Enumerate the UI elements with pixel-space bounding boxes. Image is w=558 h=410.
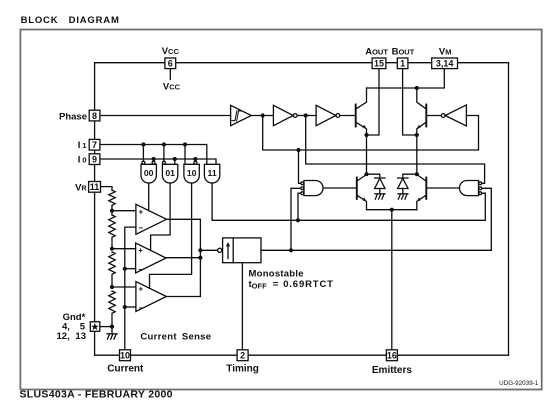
svg-text:VCC: VCC <box>163 82 181 93</box>
comparator A1 <box>136 204 167 234</box>
svg-text:15: 15 <box>374 59 384 69</box>
wire phase tap line y150 <box>263 116 479 151</box>
wire inv1 tap line y164 <box>306 116 485 184</box>
svg-text:VR: VR <box>75 183 86 194</box>
diode D1 <box>367 174 380 178</box>
inverter U4 driving Q2 <box>445 105 466 126</box>
node Q4 collector <box>415 172 419 176</box>
wire U5 in1 from y150 tap <box>299 150 301 183</box>
svg-text:Timing: Timing <box>226 364 259 375</box>
wire I0 tap to gate 00 <box>153 159 155 161</box>
decoder gate 00 <box>141 164 156 183</box>
wire comp1 output <box>167 219 201 296</box>
svg-text:tOFF: tOFF <box>249 279 268 291</box>
wire BOUT drop pin 1 <box>403 69 417 135</box>
wire VM rail <box>367 69 445 88</box>
wire A node down to Q3 collector <box>366 135 368 174</box>
svg-text:10: 10 <box>187 168 197 178</box>
wire I0 tap to gate 01 <box>174 159 176 164</box>
wire monostable output line <box>261 249 491 251</box>
node I1-01 <box>162 142 166 146</box>
wire B node down to Q4 collector <box>416 135 418 174</box>
svg-text:Emitters: Emitters <box>372 365 412 376</box>
wire I0 tap to gate 10 <box>194 159 196 161</box>
wire comp2 minus <box>125 268 136 270</box>
pin 2 <box>237 350 248 361</box>
pin 8 <box>89 110 100 121</box>
wire right trunk <box>508 63 510 356</box>
svg-text:0.69RTCT: 0.69RTCT <box>283 279 334 290</box>
wire gate11 output line <box>212 183 485 220</box>
node U5 in3 tap <box>296 218 300 222</box>
svg-text:=: = <box>273 279 279 290</box>
node Q3 collector <box>364 172 368 176</box>
svg-text:Current: Current <box>107 364 144 375</box>
wire I1 bus <box>100 145 207 165</box>
node divider tap 2 <box>110 247 114 251</box>
svg-text:2: 2 <box>240 351 245 361</box>
svg-text:1: 1 <box>400 59 405 69</box>
svg-text:BLOCK DIAGRAM: BLOCK DIAGRAM <box>21 15 120 26</box>
transistor Q1 high-side A <box>355 105 357 127</box>
pin gnd * <box>90 322 100 332</box>
node I0-01 <box>173 157 177 161</box>
node I0-00 <box>152 157 156 161</box>
pin 10 <box>120 350 131 361</box>
pin 11 <box>89 182 101 193</box>
wire tap3 to comparator 3 <box>112 286 136 288</box>
transistor Q3 low-side A <box>356 178 358 199</box>
wire inverter2 out to Q1 base <box>340 115 356 117</box>
wire tap2 to comparator 2 <box>112 248 136 250</box>
wire U4 out to Q2 base <box>426 115 441 117</box>
node and1 in1 tap <box>296 148 300 152</box>
ground D2 <box>398 193 408 195</box>
wire gate10 output <box>150 183 192 288</box>
pin 16 <box>386 350 397 361</box>
resistor R4 <box>109 291 115 327</box>
svg-text:AOUT: AOUT <box>365 46 388 57</box>
schmitt buffer U1 <box>231 105 252 125</box>
wire U5 in3 from gate11 line <box>298 193 301 220</box>
wire I1 tap to gate 00 <box>142 145 144 162</box>
resistor R3 <box>109 252 115 287</box>
svg-text:10: 10 <box>120 351 130 361</box>
wire inverter1 out <box>297 115 316 117</box>
wire gate01 output <box>151 183 171 250</box>
wire I0 bus <box>100 159 216 164</box>
wire top VCC rail <box>95 62 509 64</box>
svg-text:00: 00 <box>144 168 154 178</box>
transistor Q4 low-side B <box>425 178 427 199</box>
svg-text:UDG-92039-1: UDG-92039-1 <box>499 380 539 387</box>
wire gate00 output <box>148 183 150 211</box>
wire Vcc stub below pin 6 <box>169 69 171 80</box>
svg-text:−: − <box>138 265 143 274</box>
svg-text:6: 6 <box>168 59 173 69</box>
svg-text:Monostable: Monostable <box>249 268 304 279</box>
wire VR to divider <box>101 187 113 191</box>
node sense comp3 <box>123 305 127 309</box>
svg-text:−: − <box>139 304 144 313</box>
wire R1 to comp1 + <box>111 207 113 216</box>
wire U5 in2 from monostable line <box>291 188 301 250</box>
wire comp3 minus <box>125 306 136 308</box>
node sense comp2 <box>123 267 127 271</box>
node ground junction <box>110 325 114 329</box>
pin 3,14 <box>432 58 458 69</box>
AND gate U6 (right) <box>459 181 478 196</box>
node inv1 out tap <box>304 113 308 117</box>
diode D2 <box>403 174 417 178</box>
svg-text:−: − <box>139 223 144 232</box>
resistor R1 <box>109 190 115 206</box>
svg-text:11: 11 <box>208 168 217 178</box>
node divider tap 1 <box>110 209 114 213</box>
svg-text:11: 11 <box>90 182 100 192</box>
node I1-00 <box>141 142 145 146</box>
wire tap1 to comparator 1 <box>112 210 136 212</box>
wire U5 out to Q3 base <box>323 187 357 189</box>
node emitters junction <box>390 208 394 212</box>
wire to monostable input <box>200 249 217 251</box>
svg-text:3,14: 3,14 <box>436 59 454 69</box>
node U5 in2 tap <box>289 248 293 252</box>
node monostable trigger <box>198 248 202 252</box>
pin 1 <box>397 58 408 69</box>
AND gate U5 (left) <box>304 181 323 196</box>
svg-text:Current Sense: Current Sense <box>140 332 211 343</box>
svg-text:12,: 12, <box>57 331 70 342</box>
pin 6 <box>165 58 176 69</box>
decoder gate 01 <box>162 164 177 183</box>
svg-text:+: + <box>139 285 144 294</box>
svg-text:I 0: I 0 <box>78 155 87 166</box>
svg-text:16: 16 <box>387 351 397 361</box>
decoder gate 11 <box>204 164 219 183</box>
node BOUT emitter junction <box>415 133 419 137</box>
node schmitt out tap <box>261 113 265 117</box>
node Q2 collector on VM rail <box>415 86 419 90</box>
wire emitters drop to pin 16 <box>391 210 393 350</box>
svg-text:+: + <box>138 246 143 255</box>
svg-text:VCC: VCC <box>162 46 180 57</box>
svg-text:Phase: Phase <box>59 112 87 123</box>
svg-text:13: 13 <box>75 331 86 342</box>
resistor R2 <box>109 215 115 249</box>
node AOUT emitter junction <box>364 133 368 137</box>
wire comp3 output <box>166 296 200 298</box>
svg-text:7: 7 <box>92 140 97 150</box>
wire U6 in3 from gate11 line <box>482 193 486 220</box>
svg-text:SLUS403A - FEBRUARY 2000: SLUS403A - FEBRUARY 2000 <box>20 389 173 401</box>
transistor Q2 high-side B <box>425 105 427 127</box>
wire I1 tap to gate 01 <box>163 145 165 162</box>
svg-text:+: + <box>139 207 144 216</box>
wire left trunk <box>94 63 96 356</box>
wire comp2 output <box>166 257 200 259</box>
wire AOUT drop pin 15 <box>367 69 380 135</box>
wire I1 tap to gate 10 <box>184 145 186 165</box>
node divider tap 3 <box>110 285 114 289</box>
svg-text:I 1: I 1 <box>78 140 87 151</box>
svg-text:9: 9 <box>92 155 97 165</box>
decoder gate 10 <box>184 164 199 183</box>
node comp2 out <box>198 256 202 260</box>
ground D1 <box>375 193 385 195</box>
node I1-10 <box>183 142 187 146</box>
svg-text:VM: VM <box>439 46 452 57</box>
ground divider <box>111 327 113 334</box>
svg-text:01: 01 <box>165 168 175 178</box>
node I0-10 <box>193 157 197 161</box>
wire timing drop to pin 2 <box>241 263 243 350</box>
wire U6 in2 from monostable out <box>482 188 492 250</box>
svg-text:8: 8 <box>92 111 97 121</box>
wire emitter rail <box>367 209 417 211</box>
wire U6 out to Q4 base <box>426 187 459 189</box>
wire gnd pin to divider <box>100 326 112 328</box>
pin 7 <box>89 139 100 150</box>
pin 9 <box>89 154 100 165</box>
svg-text:BOUT: BOUT <box>392 46 415 57</box>
monostable U7 <box>218 248 222 252</box>
wire Phase input <box>100 115 231 117</box>
pin 15 <box>372 58 386 69</box>
inverter U2 <box>273 105 293 125</box>
wire sense line (minus inputs) to pin 10 <box>125 227 136 350</box>
comparator A2 <box>136 243 167 273</box>
inverter U3 <box>316 105 336 125</box>
wire bottom rail <box>95 354 509 356</box>
comparator A3 <box>136 282 167 312</box>
wire schmitt out <box>251 115 273 117</box>
